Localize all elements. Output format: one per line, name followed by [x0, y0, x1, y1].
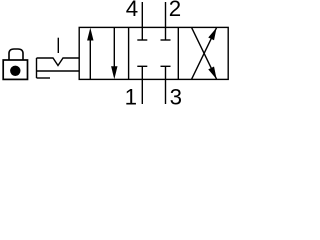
svg-text:4: 4 [126, 0, 138, 21]
svg-text:3: 3 [170, 85, 182, 106]
svg-text:1: 1 [125, 85, 137, 106]
svg-text:2: 2 [169, 0, 181, 21]
